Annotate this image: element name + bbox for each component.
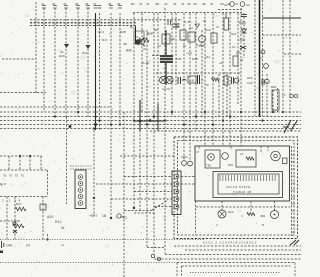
node F <box>1 183 3 187</box>
junction <box>93 127 95 129</box>
label 10 <box>158 44 162 48</box>
wire <box>134 191 172 193</box>
label B1 <box>130 25 134 29</box>
annotation 42 <box>283 120 297 133</box>
svg-text:R2B: R2B <box>120 30 126 34</box>
relay K1 <box>134 31 144 44</box>
wire solid seg <box>157 104 159 131</box>
wire <box>181 183 195 185</box>
connector J1 pin 1 <box>78 175 83 180</box>
label A4 <box>162 87 171 91</box>
label 75 75 75 <box>3 174 24 178</box>
resistor R34 <box>247 213 255 216</box>
terminal circle <box>151 254 154 257</box>
module box inner border <box>178 141 295 236</box>
diode D8 <box>182 161 187 166</box>
terminal circle P2 <box>117 214 121 218</box>
label R38 <box>239 21 246 25</box>
bus wire bottom-0a <box>174 245 301 247</box>
svg-text:A6: A6 <box>219 61 223 65</box>
terminal circle 8 <box>290 94 294 98</box>
label K2 4 <box>98 30 105 34</box>
connector J1 pin 2 <box>78 181 83 186</box>
fuse F3b <box>198 75 200 84</box>
wire <box>195 201 197 235</box>
svg-text:R32: R32 <box>228 210 234 214</box>
wire <box>230 146 232 150</box>
wire <box>96 183 172 185</box>
junction <box>272 111 274 113</box>
label R27 <box>89 214 97 218</box>
bus wire mid-4 <box>0 124 301 126</box>
svg-text:S0L1D STATE: S0L1D STATE <box>226 185 251 189</box>
svg-text:R19: R19 <box>205 28 211 32</box>
transistor Q2 <box>199 36 206 43</box>
svg-text:49: 49 <box>173 2 177 6</box>
junction <box>195 115 197 117</box>
resistor R23 <box>212 78 220 81</box>
wire <box>153 13 155 254</box>
junction <box>261 119 263 121</box>
ground lug <box>0 251 3 254</box>
node labels top-left <box>41 2 121 6</box>
label 41A <box>205 55 210 59</box>
label 4B <box>123 42 127 46</box>
wire <box>171 13 173 117</box>
junction <box>119 123 121 125</box>
svg-text:4K: 4K <box>203 19 207 23</box>
connector J2 pin 5 <box>174 204 179 209</box>
svg-text:R25: R25 <box>247 76 253 80</box>
terminal circle A1 <box>230 2 235 7</box>
wire end ticks <box>42 6 122 9</box>
svg-text:4A 4R: 4A 4R <box>141 61 150 65</box>
connector J2 pin 1 <box>174 174 179 179</box>
svg-text:C25: C25 <box>247 81 253 85</box>
svg-text:42: 42 <box>139 2 143 6</box>
svg-text:47: 47 <box>216 25 220 29</box>
svg-text:R6B: R6B <box>14 219 20 223</box>
chassis box top <box>177 262 295 264</box>
wire <box>6 197 8 240</box>
svg-text:A1: A1 <box>224 3 228 7</box>
wire <box>123 112 125 277</box>
label 47 <box>196 150 200 154</box>
wire <box>65 8 67 117</box>
bus wire bottom-2 <box>154 258 301 260</box>
bus wire bottom-dotted <box>0 262 177 264</box>
junction <box>94 123 97 126</box>
bus wire mid-1 <box>0 111 301 113</box>
junction <box>183 123 185 125</box>
wire <box>274 201 276 211</box>
svg-text:31: 31 <box>164 67 168 71</box>
chassis box inner left <box>181 266 183 277</box>
svg-text:75 75 75 75: 75 75 75 75 <box>3 174 24 178</box>
wire <box>183 13 185 160</box>
svg-text:P2: P2 <box>123 216 127 220</box>
bus wire mid-2 <box>0 116 301 118</box>
label R17 <box>147 32 153 36</box>
svg-text:41A: 41A <box>205 55 210 59</box>
label 31 <box>164 67 168 71</box>
svg-text:SR6: SR6 <box>271 85 277 89</box>
label 47 <box>216 25 220 29</box>
wire <box>8 156 10 170</box>
label 4 <box>241 214 243 218</box>
svg-text:A4 D4: A4 D4 <box>162 87 171 91</box>
bus wire band-2 <box>30 22 136 24</box>
wire jog <box>152 55 160 57</box>
svg-text:4J: 4J <box>235 2 239 6</box>
bus wire bottom-left <box>0 239 205 241</box>
svg-text:AR: AR <box>236 51 241 55</box>
junction <box>29 155 31 157</box>
wire solid seg <box>165 30 167 85</box>
svg-text:R1B: R1B <box>192 57 198 61</box>
wire <box>181 176 195 178</box>
label 14A <box>6 244 13 248</box>
junction <box>258 115 260 117</box>
wire <box>260 146 262 152</box>
wire <box>282 0 284 114</box>
svg-text:47: 47 <box>196 150 200 154</box>
junction <box>19 155 21 157</box>
wire <box>226 74 228 117</box>
label W <box>61 226 65 230</box>
bus wire dark seg <box>134 120 165 122</box>
junction <box>212 123 214 125</box>
label 2W <box>175 24 180 28</box>
lamp L2 <box>166 76 173 83</box>
label 24 <box>26 244 30 248</box>
resistor R19 <box>211 33 217 43</box>
connector J1 pin 3 <box>78 188 83 193</box>
label TIMER <box>233 190 252 194</box>
label 1B2 <box>120 215 124 219</box>
svg-text:P: P <box>225 71 227 75</box>
label 4A 4R <box>141 61 150 65</box>
label 22 <box>143 47 147 51</box>
svg-text:R2D: R2D <box>59 54 66 58</box>
label R25 <box>247 76 253 80</box>
svg-text:R67: R67 <box>16 202 22 206</box>
junction <box>282 111 284 113</box>
relay coil K5 <box>218 210 226 218</box>
wire <box>124 176 172 178</box>
wire <box>212 13 214 146</box>
chassis box right <box>294 263 296 277</box>
component box U3 <box>188 32 195 42</box>
timer terminal ticks <box>220 175 275 181</box>
svg-text:R-D: R-D <box>102 38 108 42</box>
wire <box>93 130 95 216</box>
svg-text:4E: 4E <box>202 2 206 6</box>
svg-text:R21: R21 <box>82 51 88 55</box>
wire <box>175 13 177 85</box>
wire <box>35 2 37 93</box>
wire <box>43 8 45 112</box>
wire dotted inner <box>190 272 280 274</box>
label 4C <box>232 45 236 49</box>
wire <box>189 13 191 160</box>
label 332 <box>239 38 245 42</box>
junction <box>93 197 95 199</box>
chassis box inner top <box>182 265 291 267</box>
wire <box>284 53 301 55</box>
wire <box>40 156 42 170</box>
svg-text:1B: 1B <box>171 37 175 41</box>
label terminal numbers <box>2 199 21 203</box>
wire <box>272 90 274 112</box>
label A2/R2D <box>60 50 64 54</box>
transistor Q6 <box>222 153 229 160</box>
label 2 <box>216 223 218 227</box>
wire <box>47 234 49 240</box>
wire <box>77 8 79 117</box>
svg-text:33: 33 <box>240 58 244 62</box>
wire <box>164 8 166 254</box>
resistor R30 <box>246 157 254 160</box>
label R-D <box>102 38 108 42</box>
bus wire mid-0 <box>0 106 111 108</box>
label module terminals <box>203 241 257 245</box>
svg-text:11B: 11B <box>189 79 194 83</box>
label R21 <box>82 51 88 55</box>
wire <box>263 34 302 36</box>
wire <box>222 13 224 146</box>
label 4R <box>154 28 158 32</box>
junction <box>77 111 79 113</box>
wire <box>133 13 135 208</box>
svg-text:F: F <box>260 57 262 61</box>
bus wire band-3 <box>30 25 136 27</box>
connector J1 pin 5 <box>78 201 83 206</box>
wire <box>267 146 269 151</box>
bus wire band-1 <box>30 19 182 21</box>
svg-text:D2D3: D2D3 <box>181 155 188 159</box>
connector J2 body <box>172 171 181 215</box>
diode D2 <box>86 45 91 49</box>
terminal circle <box>157 257 160 260</box>
resistor R7B block <box>160 55 173 63</box>
label R7B <box>176 57 182 61</box>
junction <box>98 119 100 121</box>
junction <box>46 238 48 240</box>
svg-text:4C: 4C <box>232 45 236 49</box>
bus wire bottom-0b <box>185 249 301 251</box>
resistor R17 <box>162 34 170 44</box>
zener diode Z1 <box>242 29 247 33</box>
wire stub <box>147 32 154 34</box>
wire <box>66 117 68 205</box>
svg-text:C3: C3 <box>189 26 193 30</box>
svg-text:B1: B1 <box>130 25 134 29</box>
svg-text:+2 4: +2 4 <box>186 51 192 55</box>
terminal block TB2 bottom edge <box>0 196 48 198</box>
terminal circle A2 <box>240 2 245 7</box>
wire <box>19 156 21 170</box>
lamp F2 <box>264 64 269 69</box>
svg-text:K2 4: K2 4 <box>98 30 105 34</box>
ground <box>2 241 4 248</box>
svg-text:TB2: TB2 <box>206 164 212 168</box>
label A2 <box>240 152 244 156</box>
resistor R68 <box>13 224 24 228</box>
svg-text:A10: A10 <box>47 215 53 219</box>
wire <box>29 156 31 170</box>
wire <box>95 13 97 130</box>
terminal block TB2 right edge <box>47 170 49 197</box>
wire <box>250 201 252 211</box>
svg-text:1K: 1K <box>183 44 187 48</box>
wire <box>124 210 152 212</box>
component box U4 <box>188 76 196 83</box>
svg-text:A2: A2 <box>240 152 244 156</box>
transistor Q5 <box>208 154 215 161</box>
label R67 <box>16 202 22 206</box>
junction <box>69 125 72 128</box>
lamp F1 <box>261 50 265 54</box>
svg-text:B: B <box>262 223 264 227</box>
motor M1 <box>271 151 281 161</box>
junction <box>149 119 152 122</box>
wire <box>134 212 155 214</box>
transistor Q1 <box>135 38 145 46</box>
wire <box>87 8 89 117</box>
junction <box>222 119 224 121</box>
wire <box>0 220 13 222</box>
terminal circle 9 <box>294 94 298 98</box>
wire <box>147 247 165 249</box>
node A1 <box>224 3 228 7</box>
label TB2 <box>206 164 212 168</box>
junction <box>240 111 242 113</box>
svg-text:4+: 4+ <box>61 243 65 247</box>
junction <box>153 115 155 117</box>
label 1B <box>102 214 107 218</box>
wire <box>254 0 256 116</box>
capacitor C3 <box>173 24 180 27</box>
bus wire in-module <box>196 206 290 208</box>
wire diagonal <box>152 200 168 210</box>
junction <box>139 120 142 123</box>
wire <box>198 146 200 150</box>
svg-text:R24: R24 <box>231 32 237 36</box>
wire <box>120 155 174 157</box>
annotation handwriting <box>290 240 299 245</box>
label SOLID STATE <box>226 185 251 189</box>
diode D7 <box>13 230 17 233</box>
wire <box>157 13 159 117</box>
wire solid seg <box>139 100 141 131</box>
component box U7 <box>283 158 288 164</box>
bus wire block-top <box>0 155 42 157</box>
wire <box>14 197 16 240</box>
junction <box>229 115 231 117</box>
resistor R26 <box>233 56 238 66</box>
component box U2 <box>180 30 186 40</box>
label W <box>206 83 209 87</box>
label 4K <box>203 19 207 23</box>
connector J2 pin 4 <box>174 197 179 202</box>
svg-text:10: 10 <box>158 44 162 48</box>
wire <box>277 88 279 112</box>
svg-text:W: W <box>206 83 209 87</box>
lamp L1 <box>159 76 166 83</box>
svg-text:W: W <box>61 226 65 230</box>
junction <box>204 111 206 113</box>
component P1 <box>224 76 228 85</box>
label tick <box>282 93 286 97</box>
wire <box>111 198 172 200</box>
svg-text:R30: R30 <box>228 163 234 167</box>
svg-text:14A: 14A <box>6 244 13 248</box>
svg-text:4B: 4B <box>123 42 127 46</box>
svg-text:+F: +F <box>282 93 286 97</box>
diode D1 <box>64 44 69 48</box>
svg-text:T1MER 4B: T1MER 4B <box>233 190 252 194</box>
svg-text:A42: A42 <box>126 49 132 53</box>
junction <box>110 217 112 219</box>
component box U5 <box>205 150 220 168</box>
module box outer <box>174 137 298 239</box>
wire <box>154 206 172 208</box>
wire stub <box>184 21 190 23</box>
connector J1 pin 4 <box>78 194 83 199</box>
svg-text:1B: 1B <box>102 214 107 218</box>
relay SR6 <box>272 90 279 110</box>
wire stub left <box>2 58 36 60</box>
wire <box>237 13 239 105</box>
svg-text:22: 22 <box>143 47 147 51</box>
component box U6 <box>236 150 256 167</box>
resistor R16 <box>139 38 149 42</box>
label R24 <box>231 32 237 36</box>
capacitor C7 <box>232 77 234 84</box>
label A10 <box>47 215 53 219</box>
junction <box>54 115 56 117</box>
timer block inner <box>218 174 279 194</box>
wire <box>218 74 220 117</box>
label 33 <box>240 58 244 62</box>
svg-text:+R27: +R27 <box>89 214 97 218</box>
relay coil K6 <box>271 211 279 219</box>
wire <box>0 92 46 94</box>
svg-text:A2: A2 <box>246 3 250 7</box>
wire <box>204 13 206 146</box>
capacitor C6 <box>262 79 264 85</box>
label R30 <box>228 163 234 167</box>
junction <box>133 119 135 121</box>
svg-text:44: 44 <box>181 2 185 6</box>
wire <box>99 13 101 130</box>
diode D4 <box>240 46 246 49</box>
junction <box>146 123 148 125</box>
wire <box>119 13 121 125</box>
svg-text:R12: R12 <box>55 220 62 224</box>
wire solid seg <box>135 26 137 44</box>
wire <box>201 30 203 117</box>
capacitor C5 <box>178 77 187 84</box>
junction <box>171 111 173 113</box>
svg-text:4B1: 4B1 <box>260 214 266 218</box>
connector J2 pin 3 <box>174 189 179 194</box>
svg-text:4A: 4A <box>164 2 168 6</box>
svg-text:A1C1 2 C2A2P1B1G1B2G2: A1C1 2 C2A2P1B1G1B2G2 <box>203 241 257 245</box>
svg-text:R7B: R7B <box>176 57 182 61</box>
bus wire top-2 <box>133 12 242 14</box>
